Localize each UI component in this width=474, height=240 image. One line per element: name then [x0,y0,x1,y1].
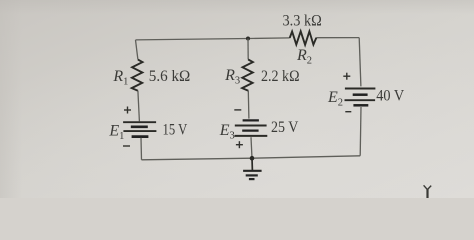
svg-text:25 V: 25 V [271,119,299,136]
value label 3.3 kOhm [283,13,322,30]
wire E3 to ground node [251,137,252,158]
minus sign of E3 [234,109,241,111]
resistor R2 [290,31,317,45]
label E2 [327,89,343,109]
svg-text:15 V: 15 V [163,122,188,139]
wire top from node A to R2 left lead [136,38,290,40]
svg-text:2.2 kΩ: 2.2 kΩ [261,68,300,85]
battery E1 [123,122,156,136]
label E3 [219,122,235,142]
svg-text:3.3 kΩ: 3.3 kΩ [283,13,322,30]
wire top right corner down to E2 [359,38,361,87]
resistor R1 [132,60,143,91]
svg-text:5.6 kΩ: 5.6 kΩ [149,68,191,85]
value label 25 V [271,119,299,136]
wire E1 to bottom corner [140,138,143,160]
wire top from R2 right lead to right corner [316,37,359,39]
value label 40 V [376,87,404,104]
wire left branch upper (top corner to R1) [136,40,138,60]
ground [243,158,262,179]
label E1 [108,123,124,143]
resistor R3 [242,60,253,91]
ground node junction dot [250,156,255,161]
plus sign of E3 [236,141,243,148]
wire E2 to bottom right corner [359,107,362,156]
minus sign of E1 [123,145,130,147]
plus sign of E1 [124,107,131,114]
value label 5.6 kOhm [149,68,191,85]
wire bottom [142,156,361,160]
battery E2 [345,89,376,106]
battery E3 [235,120,268,135]
plus sign of E2 [343,73,350,80]
minus sign of E2 [345,111,351,113]
svg-text:40 V: 40 V [376,87,404,104]
wire node A to R3 [247,39,249,60]
node A junction dot on top wire [246,37,250,41]
value label 15 V [163,122,188,139]
label R3 [224,67,240,87]
value label 2.2 kOhm [261,68,300,85]
label R1 [112,68,128,88]
label R2 [296,47,312,67]
wire R1 to E1 [138,91,140,122]
wire R3 to E3 [247,91,250,119]
text cursor I-beam artifact [424,185,432,198]
